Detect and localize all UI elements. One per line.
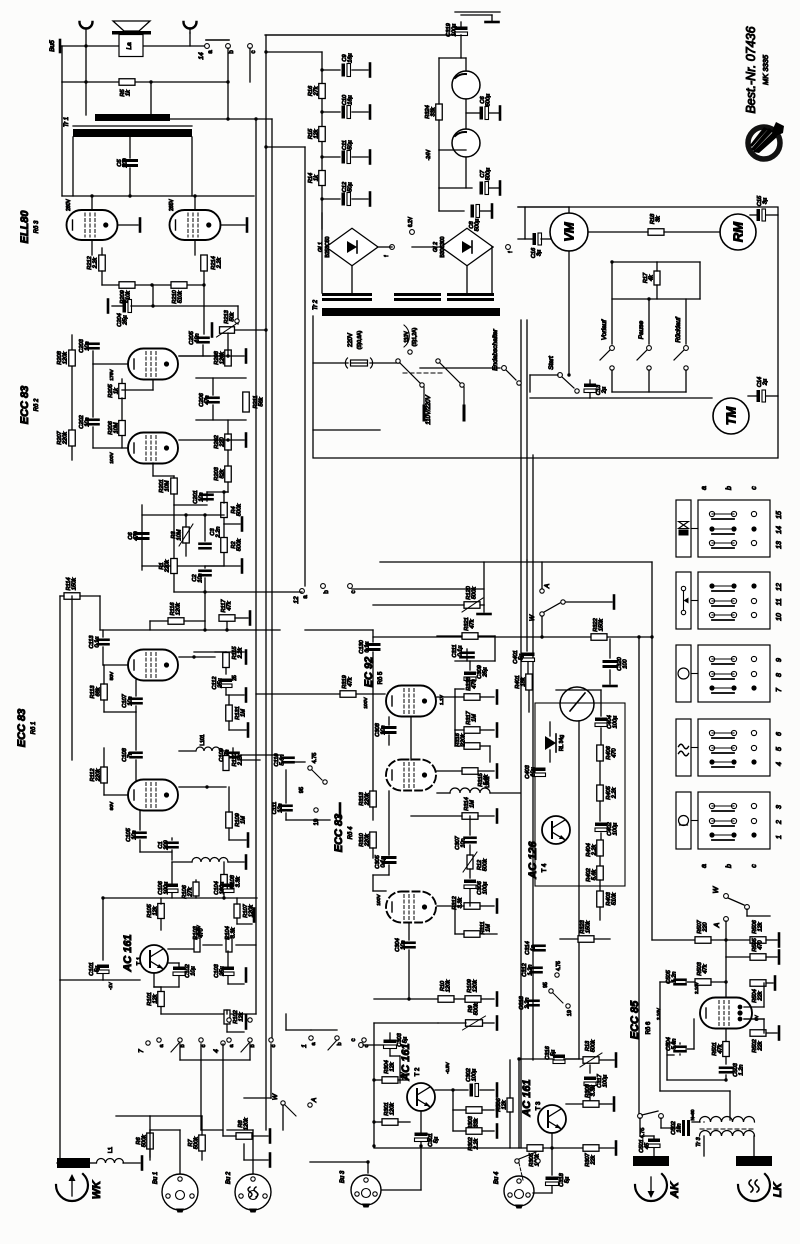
svg-text:C106100µ: C106100µ [158, 880, 170, 894]
svg-text:R8120k: R8120k [238, 1117, 250, 1130]
svg-text:-0.5V: -0.5V [445, 1061, 451, 1073]
svg-text:C11112n: C11112n [272, 802, 284, 815]
svg-text:R2051k: R2051k [108, 383, 120, 397]
svg-text:R3022.2k: R3022.2k [468, 1136, 480, 1150]
svg-text:R1311M: R1311M [235, 706, 247, 719]
svg-text:b: b [180, 1044, 186, 1047]
svg-text:Endabschalter: Endabschalter [492, 328, 499, 370]
svg-text:R50147k: R50147k [712, 1042, 724, 1055]
svg-text:C20210n: C20210n [79, 414, 91, 428]
svg-text:R3111M: R3111M [480, 922, 492, 935]
svg-text:b: b [726, 486, 733, 490]
svg-text:Bu 1: Bu 1 [153, 1172, 159, 1184]
svg-text:Gl 1: Gl 1 [318, 242, 324, 252]
svg-text:C3121.2n: C3121.2n [522, 962, 534, 976]
svg-text:Bu 2: Bu 2 [226, 1171, 232, 1184]
svg-text:C20425µ: C20425µ [117, 313, 129, 326]
svg-text:L301: L301 [485, 776, 491, 787]
svg-text:C8500µ: C8500µ [469, 219, 481, 232]
svg-text:1: 1 [776, 835, 783, 839]
svg-text:4.75: 4.75 [556, 961, 562, 971]
svg-text:R141k: R141k [308, 173, 320, 183]
svg-text:R4025.6k: R4025.6k [586, 867, 598, 881]
svg-text:R20110M: R20110M [159, 479, 171, 492]
svg-text:175V: 175V [109, 369, 115, 381]
svg-text:C1250µ: C1250µ [342, 181, 354, 192]
svg-text:b: b [250, 1044, 256, 1047]
svg-text:C306100µ: C306100µ [477, 880, 489, 894]
svg-text:c: c [751, 486, 758, 490]
svg-text:C153µ: C153µ [757, 195, 769, 206]
svg-text:C163µ: C163µ [531, 247, 543, 258]
svg-text:R109120k: R109120k [467, 979, 479, 993]
svg-text:6: 6 [776, 732, 783, 736]
svg-text:R4052.2k: R4052.2k [606, 785, 618, 799]
svg-text:C5100: C5100 [117, 157, 129, 167]
svg-text:R112220k: R112220k [90, 768, 102, 782]
svg-text:c: c [251, 51, 257, 54]
svg-text:c: c [271, 1044, 277, 1047]
svg-text:a: a [701, 864, 708, 868]
svg-text:C404100µ: C404100µ [607, 715, 619, 728]
svg-text:19: 19 [567, 1010, 573, 1016]
svg-text:(S)0,6A): (S)0,6A) [357, 330, 363, 349]
svg-text:Vorlauf: Vorlauf [601, 319, 608, 341]
svg-text:C30410n: C30410n [395, 938, 407, 951]
svg-text:C6500µ: C6500µ [480, 94, 492, 107]
svg-text:C5031.2n: C5031.2n [733, 1062, 745, 1076]
svg-text:R10627k: R10627k [182, 884, 194, 898]
svg-text:R32147k: R32147k [464, 617, 476, 630]
svg-text:C1087n: C1087n [122, 747, 134, 761]
svg-text:R406470: R406470 [606, 745, 618, 759]
svg-text:C317100µ: C317100µ [597, 1073, 609, 1087]
svg-text:R13500k: R13500k [585, 1039, 597, 1052]
svg-text:4.75: 4.75 [640, 1128, 646, 1139]
svg-text:C916µ: C916µ [342, 53, 354, 62]
svg-text:AC 126: AC 126 [527, 840, 539, 879]
svg-text:ECC 83: ECC 83 [16, 709, 28, 748]
svg-text:R10212k: R10212k [233, 1009, 245, 1023]
svg-text:R30412k: R30412k [384, 1060, 396, 1073]
svg-text:260V: 260V [66, 199, 72, 211]
svg-text:R208120k: R208120k [57, 350, 69, 364]
svg-text:R120500k: R120500k [466, 585, 478, 599]
svg-text:110V/220V: 110V/220V [426, 394, 432, 424]
svg-text:RM: RM [731, 221, 746, 242]
svg-text:R4042.2k: R4042.2k [586, 843, 598, 856]
svg-text:Bu 3: Bu 3 [340, 1170, 346, 1183]
svg-text:R50347k: R50347k [697, 961, 709, 975]
svg-text:C3050.1µ: C3050.1µ [375, 854, 387, 868]
svg-text:90V: 90V [109, 801, 115, 810]
svg-text:a: a [208, 50, 214, 54]
svg-text:R3123.3k: R3123.3k [452, 895, 464, 909]
svg-text:13: 13 [776, 541, 783, 549]
svg-text:Rö 5: Rö 5 [378, 671, 384, 684]
svg-text:ECC 85: ECC 85 [629, 1000, 641, 1039]
svg-text:Pause: Pause [638, 320, 645, 339]
svg-text:R50222k: R50222k [752, 1038, 764, 1052]
svg-text:Rö 6: Rö 6 [646, 1021, 652, 1034]
svg-text:c: c [201, 1044, 207, 1047]
svg-text:R1220k: R1220k [159, 559, 171, 573]
svg-text:N=60: N=60 [690, 1109, 695, 1120]
svg-text:4: 4 [776, 762, 783, 766]
svg-text:R6500k: R6500k [136, 1134, 148, 1147]
svg-text:R301120k: R301120k [384, 1102, 396, 1116]
svg-text:9: 9 [776, 658, 783, 662]
svg-text:TM: TM [724, 405, 739, 425]
svg-text:C3185µ: C3185µ [559, 1172, 571, 1186]
svg-text:b: b [324, 590, 330, 594]
svg-text:R10112k: R10112k [147, 992, 159, 1005]
svg-text:C6470: C6470 [128, 530, 140, 540]
svg-text:Tr 2: Tr 2 [313, 299, 319, 310]
svg-text:a: a [229, 1044, 235, 1048]
svg-text:Rö 3: Rö 3 [34, 220, 40, 233]
svg-text:b: b [337, 1042, 343, 1045]
svg-text:R208120k: R208120k [214, 350, 226, 364]
svg-text:R9500k: R9500k [468, 1002, 480, 1015]
svg-text:C5051.2n: C5051.2n [666, 969, 678, 983]
svg-text:C30925µ: C30925µ [477, 665, 489, 678]
svg-text:C1200: C1200 [158, 839, 170, 850]
svg-text:R3141M: R3141M [464, 797, 476, 810]
svg-text:95: 95 [543, 982, 549, 988]
svg-text:C1150µ: C1150µ [342, 140, 354, 150]
svg-text:B250C50: B250C50 [325, 236, 331, 257]
svg-text:A: A [714, 922, 721, 928]
svg-text:c: c [351, 1039, 357, 1042]
svg-text:C320100: C320100 [617, 656, 629, 670]
svg-text:Rö 1: Rö 1 [31, 722, 37, 735]
svg-text:R507220: R507220 [697, 919, 709, 933]
svg-text:R1091M: R1091M [235, 813, 247, 826]
svg-text:4: 4 [213, 1049, 220, 1053]
svg-text:ECC 83: ECC 83 [333, 814, 345, 853]
svg-text:T 2: T 2 [415, 1067, 421, 1076]
svg-text:1.1V: 1.1V [439, 694, 445, 705]
svg-text:C3141n: C3141n [525, 941, 537, 954]
svg-text:Start: Start [548, 355, 555, 370]
svg-text:R323150k: R323150k [580, 919, 592, 933]
svg-text:R116120k: R116120k [170, 602, 182, 616]
svg-text:W: W [272, 1093, 279, 1100]
svg-text:A: A [544, 584, 551, 589]
svg-text:R11368k: R11368k [90, 685, 102, 699]
svg-text:3: 3 [776, 805, 783, 809]
svg-text:WK: WK [91, 1180, 103, 1199]
svg-text:2.10V: 2.10V [694, 982, 699, 994]
svg-text:R30722k: R30722k [585, 1152, 597, 1166]
svg-text:Tr 1: Tr 1 [64, 117, 70, 127]
svg-text:C1300.1µ: C1300.1µ [359, 639, 371, 653]
svg-text:b: b [726, 864, 733, 868]
svg-text:C32.2n: C32.2n [210, 527, 222, 539]
svg-text:T 4: T 4 [542, 863, 548, 872]
svg-text:R2500k: R2500k [231, 538, 243, 551]
svg-text:R50612k: R50612k [752, 919, 764, 933]
svg-text:R1512k: R1512k [308, 128, 320, 139]
svg-text:Bu 4: Bu 4 [494, 1171, 500, 1184]
svg-text:C1016µ: C1016µ [342, 94, 354, 105]
svg-text:Bu5: Bu5 [49, 40, 56, 52]
svg-text:ELL80: ELL80 [19, 210, 31, 244]
svg-text:C5045.6n: C5045.6n [666, 1037, 678, 1050]
svg-text:R1043.3k: R1043.3k [225, 926, 237, 939]
svg-text:R210510k: R210510k [172, 289, 184, 303]
svg-text:AK: AK [669, 1181, 681, 1199]
svg-text:a: a [159, 1044, 165, 1048]
svg-text:C20110n: C20110n [193, 490, 205, 503]
svg-text:11: 11 [776, 598, 783, 605]
svg-text:R316220k: R316220k [455, 732, 467, 747]
svg-text:R50422k: R50422k [752, 989, 764, 1002]
svg-text:R207220k: R207220k [57, 430, 69, 445]
svg-text:c: c [351, 591, 357, 594]
svg-text:L101: L101 [200, 734, 206, 745]
svg-text:C402100µ: C402100µ [607, 821, 619, 835]
svg-text:C3110.1µ: C3110.1µ [452, 645, 464, 658]
svg-text:C11225µ: C11225µ [212, 676, 224, 690]
svg-text:R310M: R310M [171, 529, 183, 540]
svg-text:a: a [311, 1042, 317, 1046]
svg-text:C3132.2n: C3132.2n [519, 995, 531, 1009]
svg-text:C20510n: C20510n [189, 330, 201, 344]
svg-text:ECC 83: ECC 83 [19, 386, 31, 425]
svg-text:7: 7 [776, 687, 783, 692]
svg-text:b: b [229, 50, 235, 54]
svg-text:-24V: -24V [426, 149, 432, 160]
svg-text:R7500k: R7500k [188, 1136, 200, 1149]
svg-text:C210n: C210n [192, 573, 204, 582]
svg-text:10: 10 [776, 613, 783, 621]
svg-text:MK 3335: MK 3335 [761, 54, 770, 85]
svg-text:100V: 100V [363, 697, 369, 709]
svg-text:Tr 3: Tr 3 [696, 1136, 702, 1146]
svg-text:R10120k: R10120k [440, 979, 452, 992]
svg-text:265V: 265V [169, 199, 175, 211]
svg-text:R51k: R51k [120, 89, 132, 97]
svg-text:95: 95 [299, 787, 305, 793]
svg-text:14: 14 [776, 526, 783, 534]
svg-text:-1V: -1V [108, 981, 114, 989]
svg-text:5: 5 [776, 747, 783, 751]
svg-text:2.10V: 2.10V [656, 1008, 661, 1020]
svg-text:RL 34g: RL 34g [559, 735, 565, 751]
svg-text:R21350k: R21350k [224, 309, 236, 323]
svg-text:R2122.2k: R2122.2k [87, 255, 99, 269]
svg-text:Rücklauf: Rücklauf [675, 316, 682, 342]
svg-text:R310220k: R310220k [359, 832, 371, 847]
svg-text:R20382k: R20382k [214, 466, 226, 480]
svg-text:a: a [701, 486, 708, 490]
svg-text:C7500µ: C7500µ [480, 168, 492, 181]
svg-text:R2142.2k: R2142.2k [211, 256, 223, 269]
svg-text:R103470: R103470 [193, 925, 205, 939]
svg-text:(S)1,2A): (S)1,2A) [412, 327, 418, 346]
svg-text:R11747k: R11747k [221, 599, 233, 613]
svg-text:6.2V: 6.2V [408, 216, 414, 227]
svg-text:15: 15 [776, 511, 783, 519]
svg-text:Best.-Nr. 07436: Best.-Nr. 07436 [744, 26, 758, 113]
svg-text:AC 161: AC 161 [521, 1079, 533, 1117]
svg-text:C10210µ: C10210µ [185, 963, 197, 977]
svg-text:C10325µ: C10325µ [214, 963, 226, 977]
svg-text:C20647n: C20647n [199, 392, 211, 406]
svg-text:L1: L1 [108, 1147, 114, 1153]
svg-text:C132µ: C132µ [596, 384, 608, 395]
svg-text:c: c [751, 864, 758, 868]
svg-text:25: 25 [232, 675, 238, 681]
svg-text:C10710n: C10710n [122, 693, 134, 707]
svg-text:R313220k: R313220k [359, 791, 371, 806]
svg-text:R1627k: R1627k [308, 85, 320, 97]
svg-text:100V: 100V [376, 894, 382, 906]
svg-text:R202220: R202220 [214, 434, 226, 448]
svg-text:R32433k: R32433k [425, 105, 437, 118]
svg-text:R4500k: R4500k [231, 503, 243, 516]
svg-text:C302100µ: C302100µ [466, 1067, 478, 1081]
svg-text:4.75: 4.75 [312, 753, 318, 764]
svg-text:VM: VM [562, 221, 577, 242]
svg-text:Rö 2: Rö 2 [34, 398, 40, 411]
svg-text:A: A [311, 1098, 318, 1103]
svg-text:R114150k: R114150k [66, 577, 78, 591]
svg-text:R31947k: R31947k [342, 675, 354, 688]
svg-text:14: 14 [198, 52, 205, 60]
svg-text:R183k: R183k [650, 213, 662, 224]
svg-text:W: W [529, 614, 536, 621]
svg-text:R403510k: R403510k [606, 891, 618, 905]
svg-text:8: 8 [776, 673, 783, 677]
svg-text:R40118k: R40118k [515, 675, 527, 688]
svg-text:f: f [384, 255, 390, 257]
svg-text:7: 7 [138, 1049, 145, 1053]
svg-text:C104100µ: C104100µ [214, 881, 226, 894]
svg-text:2: 2 [776, 820, 783, 825]
svg-text:R12500k: R12500k [477, 858, 489, 871]
svg-text:C142µ: C142µ [757, 377, 769, 387]
svg-text:1: 1 [301, 1044, 308, 1048]
svg-text:50V: 50V [109, 671, 115, 680]
svg-text:12: 12 [293, 596, 300, 604]
svg-text:f: f [508, 251, 514, 253]
svg-text:Rö 4: Rö 4 [348, 826, 354, 839]
svg-text:C10510n: C10510n [126, 827, 138, 841]
svg-text:R21156k: R21156k [253, 396, 265, 409]
svg-text:R3171M: R3171M [466, 710, 478, 724]
svg-text:220V: 220V [348, 333, 354, 347]
svg-text:19: 19 [314, 818, 320, 825]
svg-text:AC 161: AC 161 [122, 934, 134, 972]
svg-text:W: W [713, 885, 720, 893]
svg-text:12: 12 [776, 583, 783, 591]
svg-text:LK: LK [772, 1182, 784, 1198]
svg-text:C20310n: C20310n [79, 338, 91, 352]
svg-text:-3V: -3V [400, 1071, 406, 1079]
svg-text:C3015µ: C3015µ [428, 1133, 440, 1146]
svg-text:C30810n: C30810n [375, 722, 387, 736]
svg-text:R174k: R174k [643, 272, 655, 283]
svg-text:R10512k: R10512k [147, 903, 159, 917]
svg-text:C1130.1µ: C1130.1µ [89, 635, 101, 649]
svg-text:a: a [303, 595, 309, 599]
svg-text:6V: 6V [754, 1015, 759, 1021]
svg-text:100V: 100V [109, 452, 115, 464]
svg-text:R20610M: R20610M [108, 420, 120, 434]
svg-text:R322150k: R322150k [593, 617, 605, 631]
svg-text:C319100µ: C319100µ [446, 23, 458, 36]
svg-text:La: La [126, 42, 133, 50]
